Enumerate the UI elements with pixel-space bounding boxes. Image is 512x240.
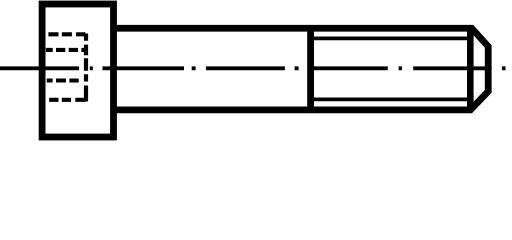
hex socket hidden line H4 (bottom) [49,98,85,102]
hex socket hidden line H2 (upper middle) [46,48,87,52]
hex socket hidden line H1 (top) [48,32,85,36]
screw head outline [42,4,113,137]
shank and threaded shaft outer profile with chamfered tip [114,28,489,110]
hex socket depth vertical hidden line [84,34,88,102]
center line (dash-dot axis) [0,66,506,70]
hex socket hidden line H3 (lower middle) [47,78,79,82]
chamfer start vertical line [467,28,474,110]
thread runout vertical line [307,28,314,110]
thread minor diameter bottom line [311,98,471,102]
thread minor diameter top line [311,37,471,41]
